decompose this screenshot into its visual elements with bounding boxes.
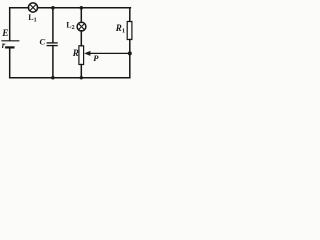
node junction wiper to right wire: [128, 51, 132, 55]
svg-text:C: C: [40, 37, 46, 47]
potentiometer R box: [79, 46, 84, 65]
capacitor C top plate: [47, 42, 57, 44]
node junction bottom of R branch: [80, 76, 83, 79]
lamp L2: [77, 22, 86, 31]
wire top-left segment: [10, 7, 29, 9]
wire bottom: [10, 77, 130, 79]
wire left side (battery bottom lead): [9, 48, 11, 78]
wire below R box: [80, 65, 82, 78]
wire capacitor branch upper: [52, 8, 54, 43]
node junction bottom of capacitor branch: [51, 76, 55, 80]
svg-text:r: r: [2, 40, 6, 50]
battery E short thick plate: [6, 46, 13, 48]
node junction top of L2 branch: [80, 6, 84, 10]
svg-text:E: E: [1, 29, 8, 39]
resistor R1 box: [127, 22, 132, 40]
wire capacitor branch lower: [52, 46, 54, 78]
wiper arrowhead: [84, 51, 90, 56]
wire right side upper: [129, 8, 131, 22]
svg-text:R: R: [72, 48, 79, 58]
svg-text:P: P: [93, 53, 99, 63]
wire top-right segment: [38, 7, 131, 9]
wire left side (battery top lead): [9, 8, 11, 41]
node junction top of capacitor branch: [51, 6, 55, 10]
battery E long plate: [2, 40, 19, 42]
capacitor C bottom plate: [47, 45, 57, 47]
wiper arrow wire: [89, 52, 130, 54]
wire right side lower: [129, 40, 131, 78]
wire L2 branch upper: [80, 8, 82, 23]
lamp L1: [28, 3, 37, 12]
wire between L2 and R: [80, 31, 82, 46]
